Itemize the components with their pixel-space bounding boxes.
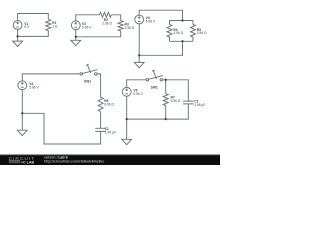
svg-text:5.96 V: 5.96 V — [146, 20, 156, 24]
svg-text:3.96 Ω: 3.96 Ω — [197, 31, 207, 35]
svg-text:≡C LAB: ≡C LAB — [21, 161, 35, 165]
svg-text:5.96 V: 5.96 V — [82, 25, 92, 29]
svg-text:1.96 µF: 1.96 µF — [194, 103, 205, 107]
svg-text:1 Ω: 1 Ω — [52, 25, 58, 29]
svg-text:3.96 Ω: 3.96 Ω — [173, 31, 183, 35]
svg-text:6.96 Ω: 6.96 Ω — [104, 102, 114, 106]
svg-text:SW1: SW1 — [84, 80, 91, 84]
svg-text:SW2: SW2 — [151, 85, 158, 89]
svg-text:5.96 V: 5.96 V — [29, 85, 39, 89]
svg-text:5 V: 5 V — [24, 25, 30, 29]
svg-text:6.96 Ω: 6.96 Ω — [171, 99, 181, 103]
svg-text:2.96 Ω: 2.96 Ω — [102, 22, 112, 26]
svg-text:http://circuitlab.com/c6dkob4d: http://circuitlab.com/c6dkob4dw3be — [44, 159, 104, 163]
svg-text:1.96 µF: 1.96 µF — [105, 130, 116, 134]
svg-text:5.96 V: 5.96 V — [133, 92, 143, 96]
svg-text:3.96 Ω: 3.96 Ω — [125, 26, 135, 30]
